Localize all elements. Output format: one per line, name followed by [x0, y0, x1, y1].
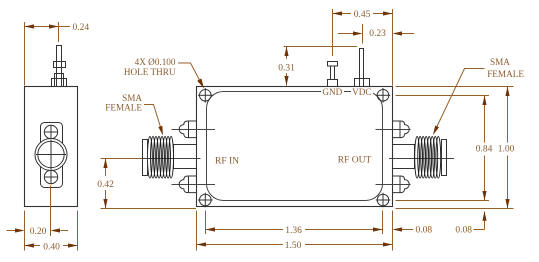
- svg-text:1.50: 1.50: [285, 241, 302, 251]
- leader SMA FEMALE left: [144, 105, 160, 127]
- svg-text:0.23: 0.23: [369, 29, 386, 39]
- svg-text:0.45: 0.45: [354, 10, 371, 20]
- 0.08 right arrow: [393, 227, 403, 231]
- side view top pin (GND/VDC pins edge-on): [52, 46, 67, 87]
- SMA FEMALE right leader arrow: [433, 126, 439, 136]
- 0.40 arrows: [25, 243, 35, 247]
- right SMA threaded coupling: [415, 137, 441, 179]
- dimension 1.36 lines: [205, 211, 207, 235]
- right SMA flange face lines: [399, 121, 401, 138]
- svg-text:GND: GND: [322, 87, 342, 97]
- dimension 0.84 lines: [396, 95, 490, 97]
- left SMA lower ear centerline: [172, 184, 216, 186]
- corner screw bottom-left: [198, 193, 213, 208]
- svg-text:0.24: 0.24: [73, 23, 90, 33]
- dimension 0.20 extension line: [50, 186, 52, 237]
- right SMA upper mounting ear: [392, 121, 409, 138]
- svg-text:HOLE THRU: HOLE THRU: [124, 67, 176, 77]
- 0.23 arrows: [353, 31, 363, 35]
- left side view enclosure body: [25, 87, 78, 207]
- 0.45 arrows: [333, 11, 343, 15]
- corner screw top-left: [198, 88, 213, 103]
- right SMA connector centerline: [389, 158, 454, 160]
- left SMA upper mounting ear: [179, 121, 196, 138]
- dimension 0.23 lines: [362, 24, 364, 44]
- dimension 1.00 lines: [396, 86, 514, 88]
- 0.42 arrows: [103, 159, 107, 169]
- dimension 0.45 lines: [332, 9, 334, 56]
- svg-text:FEMALE: FEMALE: [487, 69, 524, 79]
- leader 4X hole note: [178, 63, 200, 81]
- right SMA barrel: [393, 145, 415, 169]
- dimension 0.24 extension lines: [24, 22, 26, 86]
- svg-text:RF OUT: RF OUT: [338, 155, 372, 165]
- main view lid (inner rounded rectangle): [207, 92, 383, 201]
- 1.00 arrows: [505, 87, 509, 97]
- right SMA upper ear centerline: [376, 129, 411, 131]
- svg-text:VDC: VDC: [352, 87, 371, 97]
- right SMA end cap: [442, 140, 447, 176]
- 4X hole leader arrow: [197, 79, 204, 89]
- left SMA threaded coupling: [148, 137, 174, 179]
- svg-text:0.40: 0.40: [43, 242, 60, 252]
- corner screw bottom-right: [376, 193, 391, 208]
- left SMA lower mounting ear: [179, 176, 196, 193]
- GND feedthrough pin: [328, 62, 338, 87]
- main view enclosure outline: [197, 87, 393, 207]
- svg-text:RF IN: RF IN: [215, 156, 239, 166]
- dimension 0.08 tail (hole to edge): [402, 229, 413, 231]
- side view lower mounting screw: [44, 170, 58, 184]
- svg-text:0.84: 0.84: [476, 145, 493, 155]
- dimension 0.31 lines: [284, 46, 358, 48]
- left SMA connector centerline: [136, 158, 201, 160]
- svg-text:1.00: 1.00: [498, 145, 515, 155]
- svg-text:4X Ø0.100: 4X Ø0.100: [135, 57, 176, 67]
- dimension 0.42 lines: [101, 158, 143, 160]
- svg-text:1.36: 1.36: [285, 226, 302, 236]
- corner screw top-right: [376, 88, 391, 103]
- 1.36 arrows: [206, 227, 216, 231]
- 0.20 arrows: [15, 228, 25, 232]
- side view SMA coax face circle: [35, 139, 67, 171]
- svg-text:0.08: 0.08: [455, 225, 472, 235]
- svg-text:0.31: 0.31: [278, 64, 295, 74]
- dimension 0.08 leader (vertical gap): [484, 212, 486, 230]
- dimension 1.50 lines: [196, 211, 198, 251]
- right SMA lower ear centerline: [376, 184, 411, 186]
- VDC feedthrough pin: [355, 49, 370, 87]
- GND label: [321, 88, 344, 96]
- left SMA barrel: [174, 145, 197, 169]
- 0.84 arrows: [482, 96, 486, 106]
- left SMA end cap: [143, 140, 148, 176]
- 0.08 vertical leader arrow: [482, 211, 486, 221]
- svg-text:SMA: SMA: [490, 57, 510, 67]
- right SMA lower mounting ear: [392, 176, 409, 193]
- side view connector mounting plate: [41, 123, 63, 188]
- svg-text:SMA: SMA: [122, 93, 142, 103]
- svg-text:FEMALE: FEMALE: [105, 103, 142, 113]
- svg-text:0.20: 0.20: [30, 227, 47, 237]
- SMA FEMALE left leader arrow: [158, 126, 163, 136]
- dimension 0.40 extension lines: [24, 211, 26, 251]
- svg-text:0.42: 0.42: [97, 180, 114, 190]
- VDC label: [351, 88, 373, 96]
- 1.50 arrows: [197, 242, 207, 246]
- left SMA flange face lines: [188, 121, 190, 138]
- 0.31 arrows: [284, 47, 288, 57]
- 0.24 arrows: [25, 24, 35, 28]
- left SMA upper ear centerline: [172, 129, 216, 131]
- svg-text:0.08: 0.08: [416, 226, 433, 236]
- leader SMA FEMALE right: [437, 69, 485, 127]
- side view upper mounting screw: [44, 125, 58, 139]
